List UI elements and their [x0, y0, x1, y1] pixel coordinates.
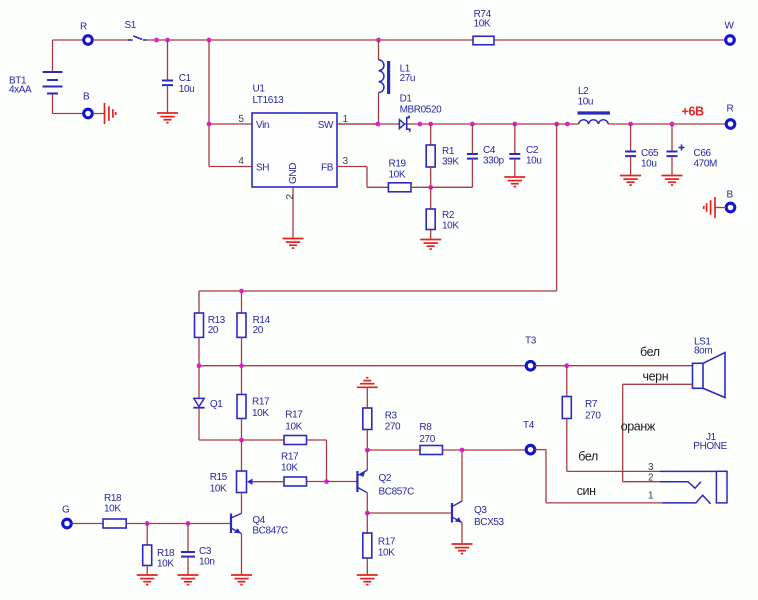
svg-text:син: син [577, 484, 596, 498]
svg-text:10n: 10n [199, 557, 215, 568]
svg-text:5: 5 [238, 114, 244, 125]
svg-text:оранж: оранж [621, 420, 656, 434]
svg-text:10K: 10K [285, 422, 302, 433]
terminal T4 [523, 420, 535, 454]
ground R2 [420, 240, 441, 250]
wire T4 to jack pin1 [535, 450, 662, 503]
resistor R17 fourth [363, 513, 396, 575]
junction R14/mid rail [239, 363, 244, 368]
wire pin 5 [209, 123, 252, 125]
ground R17 fourth [357, 575, 378, 585]
svg-text:2: 2 [285, 194, 296, 200]
wire pin 4 [209, 166, 252, 168]
chassis ground at battery B [93, 103, 116, 124]
resistor R2 [426, 187, 459, 239]
junction R17/R15 [239, 438, 244, 443]
junction C2 top [512, 122, 517, 127]
svg-text:270: 270 [585, 411, 601, 422]
svg-text:C1: C1 [179, 73, 192, 84]
transistor Q3 BCX53 [452, 450, 505, 544]
svg-text:10K: 10K [157, 559, 174, 570]
svg-text:10K: 10K [104, 504, 121, 515]
resistor R17 third [281, 452, 327, 487]
svg-text:FB: FB [321, 163, 334, 174]
terminal G [62, 505, 71, 528]
svg-text:R: R [80, 22, 87, 33]
junction R13/mid rail [197, 363, 202, 368]
pin end dot L2 [565, 122, 570, 127]
svg-text:D1: D1 [400, 94, 413, 105]
switch S1 [125, 20, 147, 40]
svg-text:Q2: Q2 [379, 473, 392, 484]
junction U1 Vin column [207, 38, 212, 43]
svg-text:R2: R2 [442, 210, 455, 221]
svg-text:10K: 10K [210, 484, 227, 495]
terminal B output [726, 190, 735, 212]
svg-text:C65: C65 [641, 148, 659, 159]
transistor Q2 BC857C [357, 450, 414, 513]
svg-text:10K: 10K [378, 548, 395, 559]
battery BT1 [9, 40, 63, 114]
ground C3 [178, 575, 199, 585]
capacitor C2 [509, 124, 541, 177]
resistor R18 series [103, 493, 126, 528]
svg-text:R17: R17 [378, 537, 396, 548]
svg-text:8om: 8om [694, 346, 712, 357]
svg-text:Q3: Q3 [474, 505, 487, 516]
wire Vin column [208, 40, 210, 167]
chassis ground at output B [704, 197, 726, 218]
junction C1 top [165, 38, 170, 43]
junction C3 [186, 521, 191, 526]
op-amp U1 LT1613 box [252, 84, 337, 188]
capacitor C3 [181, 524, 215, 576]
resistor R13 [195, 313, 226, 337]
ground U1 pin 2 [283, 239, 304, 249]
svg-text:470M: 470M [694, 159, 717, 170]
resistor R8 [367, 422, 442, 455]
ground C65 [620, 176, 641, 186]
svg-text:R17: R17 [281, 452, 299, 463]
junction R17 to Q2 base [324, 479, 329, 484]
wire battery bottom to terminal B [53, 113, 84, 115]
resistor R19 [388, 159, 411, 192]
pin end dot S1 [154, 38, 159, 43]
svg-text:C66: C66 [694, 148, 712, 159]
ground C1 [157, 113, 178, 123]
svg-text:2: 2 [648, 473, 654, 484]
junction C4 top [470, 122, 475, 127]
terminal R [80, 22, 92, 45]
svg-text:4xAA: 4xAA [9, 85, 32, 96]
svg-text:GND: GND [288, 163, 299, 184]
diode Q1 [193, 366, 223, 440]
speaker LS1 [693, 337, 726, 398]
terminal T3 [525, 336, 537, 371]
junction L1 bottom [376, 122, 381, 127]
svg-text:R17: R17 [285, 410, 303, 421]
svg-text:3: 3 [648, 462, 654, 473]
svg-text:R: R [727, 104, 734, 115]
svg-text:BC857C: BC857C [379, 487, 415, 498]
junction Q3 collector [460, 448, 465, 453]
ground R18 shunt [137, 575, 158, 585]
junction R7 top [564, 363, 569, 368]
junction R1 top [428, 122, 433, 127]
junction R14 top [239, 289, 244, 294]
svg-text:T3: T3 [525, 336, 537, 347]
wire G to R18 [72, 523, 104, 525]
ground Q3 [452, 544, 473, 554]
svg-text:R1: R1 [442, 146, 455, 157]
svg-text:270: 270 [419, 434, 435, 445]
svg-text:MBR0520: MBR0520 [400, 105, 443, 116]
junction L1 column [376, 38, 381, 43]
capacitor C66 [667, 124, 717, 175]
svg-text:10u: 10u [641, 159, 657, 170]
svg-text:B: B [83, 92, 90, 103]
svg-text:SH: SH [256, 163, 269, 174]
junction Vin [207, 122, 212, 127]
wire oranzh to jack pin2 [623, 481, 660, 483]
svg-text:R17: R17 [252, 397, 270, 408]
svg-text:10u: 10u [179, 84, 195, 95]
svg-text:бел: бел [640, 345, 660, 359]
svg-text:LT1613: LT1613 [253, 95, 285, 106]
svg-text:4: 4 [238, 156, 244, 167]
resistor R3 [363, 387, 401, 450]
resistor R74 [473, 9, 494, 45]
junction Q2 collector [365, 511, 370, 516]
flipped ground above R3 [357, 378, 378, 388]
svg-text:C2: C2 [526, 145, 539, 156]
resistor R17 second [242, 410, 327, 482]
wire R7 to jack pin3 [567, 470, 660, 472]
svg-text:BCX53: BCX53 [474, 517, 505, 528]
wire speaker black [623, 384, 693, 481]
svg-text:B: B [727, 190, 734, 201]
transistor Q4 BC847C [231, 513, 288, 575]
svg-text:C3: C3 [199, 546, 212, 557]
capacitor C4 [431, 124, 505, 187]
svg-text:10K: 10K [474, 19, 491, 30]
wire R18 to Q4 base [126, 523, 230, 525]
pin end dot D1 [417, 122, 422, 127]
junction C65 [628, 122, 633, 127]
svg-text:бел: бел [578, 450, 598, 464]
ground C2 [504, 177, 525, 187]
main rail SW node [337, 123, 557, 125]
connector J1 PHONE [648, 432, 728, 504]
wire rail to L2 [557, 123, 579, 125]
diode D1 MBR0520 [399, 94, 442, 132]
resistor R1 [426, 124, 459, 187]
svg-text:U1: U1 [253, 84, 266, 95]
resistor R17 first [237, 366, 270, 440]
resistor R18 shunt [143, 524, 175, 576]
svg-text:10u: 10u [526, 156, 542, 167]
svg-text:39K: 39K [442, 157, 459, 168]
svg-text:R3: R3 [385, 411, 398, 422]
svg-text:PHONE: PHONE [693, 441, 727, 452]
junction R3/R8/Q2 [365, 448, 370, 453]
junction R19/R1/R2 [428, 185, 433, 190]
resistor R14 [237, 291, 271, 337]
svg-text:1: 1 [648, 491, 654, 502]
wire R13 bottom [198, 337, 200, 366]
svg-text:27u: 27u [400, 73, 416, 84]
svg-text:Q1: Q1 [210, 399, 223, 410]
wire switch to top rail [147, 39, 731, 41]
svg-text:Vin: Vin [256, 120, 269, 131]
wire terminal R to switch [93, 39, 128, 41]
svg-text:W: W [725, 21, 735, 32]
svg-text:L2: L2 [578, 86, 589, 97]
wire L2 to terminal R [608, 123, 725, 125]
capacitor C65 [625, 124, 659, 175]
ground C66 [662, 176, 683, 186]
wire FB pin 3 [337, 167, 388, 188]
svg-text:10u: 10u [578, 97, 594, 108]
mid rail wire [199, 365, 526, 367]
junction main drop [554, 122, 559, 127]
wire pin 1 SW [337, 123, 379, 125]
wire pin 2 GND [292, 187, 294, 238]
long feed wire down [556, 124, 558, 291]
svg-text:330p: 330p [483, 156, 504, 167]
terminal R output [726, 104, 735, 129]
wire R14 bottom [241, 337, 243, 366]
svg-text:S1: S1 [125, 20, 137, 31]
svg-text:R19: R19 [389, 159, 407, 170]
svg-text:10K: 10K [252, 408, 269, 419]
svg-text:R7: R7 [585, 399, 598, 410]
svg-text:R8: R8 [419, 422, 432, 433]
wire Q3 junction to T4 [462, 449, 526, 451]
potentiometer R15 [210, 440, 284, 513]
wire R13 top [198, 291, 200, 313]
feed wire horizontal [199, 290, 557, 292]
wire T3 to speaker [535, 365, 693, 367]
wire Q1 bottom to junction [199, 439, 242, 441]
junction C66 [670, 122, 675, 127]
inductor L2 [578, 86, 611, 124]
resistor R7 [562, 366, 601, 472]
inductor L1 [379, 40, 416, 124]
wire battery top to terminal R [53, 39, 84, 41]
wire Q2 to Q3 base [367, 512, 451, 514]
svg-text:3: 3 [343, 156, 349, 167]
svg-text:T4: T4 [523, 420, 535, 431]
svg-text:черн: черн [643, 370, 669, 384]
terminal W [725, 21, 735, 45]
svg-text:270: 270 [385, 422, 401, 433]
svg-text:C4: C4 [483, 145, 496, 156]
svg-text:G: G [62, 505, 70, 516]
wire R8 to Q3 collector junction [443, 449, 463, 451]
capacitor C1 [162, 40, 194, 113]
svg-text:BC847C: BC847C [252, 526, 288, 537]
svg-text:+6В: +6В [682, 105, 704, 119]
ground Q4 [231, 575, 252, 585]
svg-text:R18: R18 [157, 548, 175, 559]
wire R19 to junction [411, 186, 431, 188]
svg-text:10K: 10K [389, 170, 406, 181]
terminal B (battery) [83, 92, 92, 118]
junction R18 shunt [145, 521, 150, 526]
svg-text:R18: R18 [104, 493, 122, 504]
wire to Q2 base [327, 481, 357, 483]
svg-text:Q4: Q4 [252, 515, 265, 526]
svg-text:10K: 10K [281, 463, 298, 474]
svg-text:10K: 10K [442, 221, 459, 232]
svg-text:20: 20 [208, 325, 219, 336]
svg-text:SW: SW [318, 120, 334, 131]
svg-text:20: 20 [253, 325, 264, 336]
svg-text:R15: R15 [210, 472, 228, 483]
